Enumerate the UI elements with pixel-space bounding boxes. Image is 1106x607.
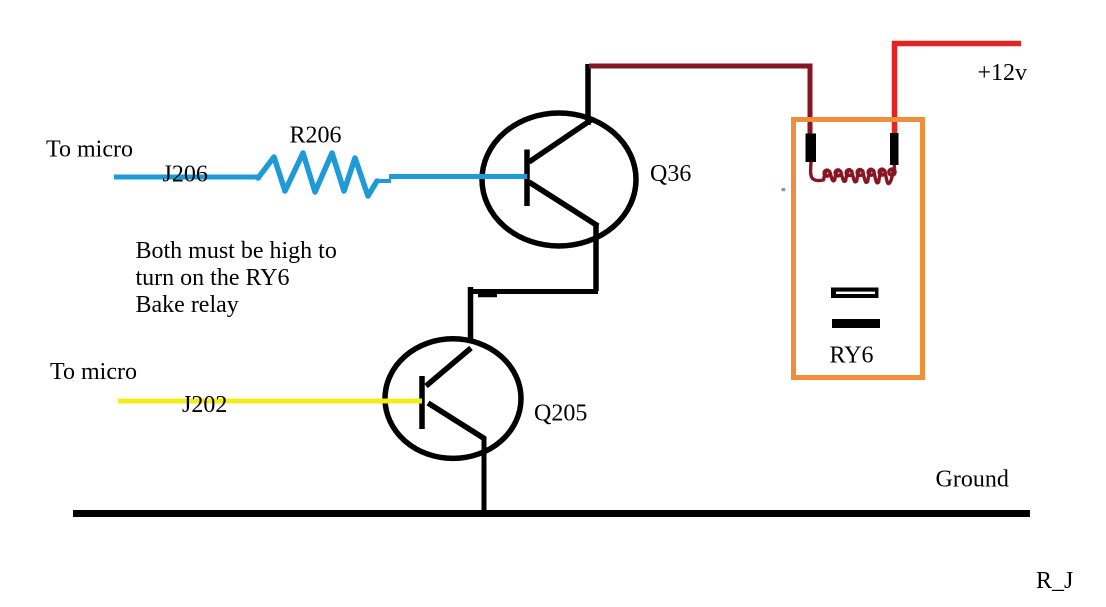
relay RY6 orange box xyxy=(794,120,923,378)
svg-text:To micro: To micro xyxy=(50,359,137,385)
svg-text:RY6: RY6 xyxy=(830,343,874,369)
svg-text:Ground: Ground xyxy=(936,467,1009,493)
stray dot xyxy=(782,188,786,191)
wire dark red collector to relay xyxy=(589,66,810,134)
svg-text:Both must be high to: Both must be high to xyxy=(136,238,337,264)
wire J202 yellow input xyxy=(118,399,422,404)
relay left pin xyxy=(806,134,817,163)
svg-text:R_J: R_J xyxy=(1036,568,1073,594)
svg-text:Bake relay: Bake relay xyxy=(136,292,239,318)
svg-text:Q205: Q205 xyxy=(534,401,587,427)
transistor Q36 emitter stroke xyxy=(529,182,598,226)
ground rail xyxy=(73,510,1030,517)
transistor Q205 base bar xyxy=(419,376,425,429)
svg-text:To micro: To micro xyxy=(46,137,133,163)
svg-text:R206: R206 xyxy=(290,123,342,149)
svg-text:J206: J206 xyxy=(163,162,208,188)
relay coil squiggle xyxy=(811,162,895,184)
transistor Q36 circle xyxy=(482,113,636,246)
svg-text:turn on the RY6: turn on the RY6 xyxy=(136,265,290,291)
transistor Q205 emitter stroke xyxy=(428,403,485,439)
wire junction vertical to Q205 xyxy=(468,287,474,342)
wire Q36 collector vertical xyxy=(585,64,591,125)
relay right pin xyxy=(890,133,899,165)
wire J206 blue input xyxy=(114,175,261,180)
transistor Q205 circle xyxy=(385,339,521,459)
wire R206 to Q36 base xyxy=(389,174,527,179)
wire Q205 emitter to ground xyxy=(482,437,487,516)
svg-text:J202: J202 xyxy=(182,392,227,418)
relay contact lower bar xyxy=(832,319,880,328)
wire jog overlap xyxy=(478,293,497,298)
relay contact upper bar xyxy=(831,288,879,299)
wire +12v red xyxy=(895,44,1022,134)
transistor Q205 collector stroke xyxy=(426,348,471,386)
svg-text:Q36: Q36 xyxy=(650,161,691,187)
wire R206 right stub xyxy=(376,179,391,183)
transistor Q36 collector stroke xyxy=(529,120,591,162)
wire junction horizontal xyxy=(472,289,598,294)
relay contact upper bar white stripe xyxy=(836,292,875,294)
svg-text:+12v: +12v xyxy=(978,60,1028,86)
wire Q36 emitter to Q205 collector xyxy=(593,224,599,291)
transistor Q36 base bar xyxy=(524,150,530,207)
resistor R206 zigzag xyxy=(258,153,377,196)
